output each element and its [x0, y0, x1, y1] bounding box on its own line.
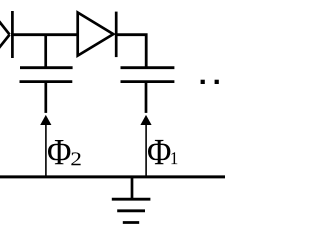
- clock arrow into C1 (arrowhead): [40, 115, 51, 125]
- wire: C2 bottom plate stem: [145, 82, 148, 113]
- diode D2: [78, 12, 117, 58]
- capacitor C2: [121, 68, 175, 82]
- capacitor C1: [20, 68, 73, 82]
- label PHI2: [48, 140, 81, 165]
- wire: D2 cathode, right then down to capacitor C2: [115, 35, 146, 67]
- clock arrow into C2 (shaft): [145, 125, 147, 177]
- wire: D1 cathode to D2 anode: [11, 33, 79, 36]
- clock arrow into C1 (shaft): [45, 125, 47, 177]
- ground: [112, 199, 151, 222]
- diode D1 (partially visible at left edge): [0, 11, 12, 58]
- wire: C1 bottom plate stem: [44, 82, 47, 113]
- label PHI1: [148, 140, 177, 164]
- continuation dots: [201, 80, 219, 84]
- wire: junction down to capacitor C1: [44, 34, 47, 67]
- bottom rail wire: [0, 175, 225, 178]
- clock arrow into C2 (arrowhead): [140, 115, 151, 125]
- wire: rail to ground: [131, 177, 134, 200]
